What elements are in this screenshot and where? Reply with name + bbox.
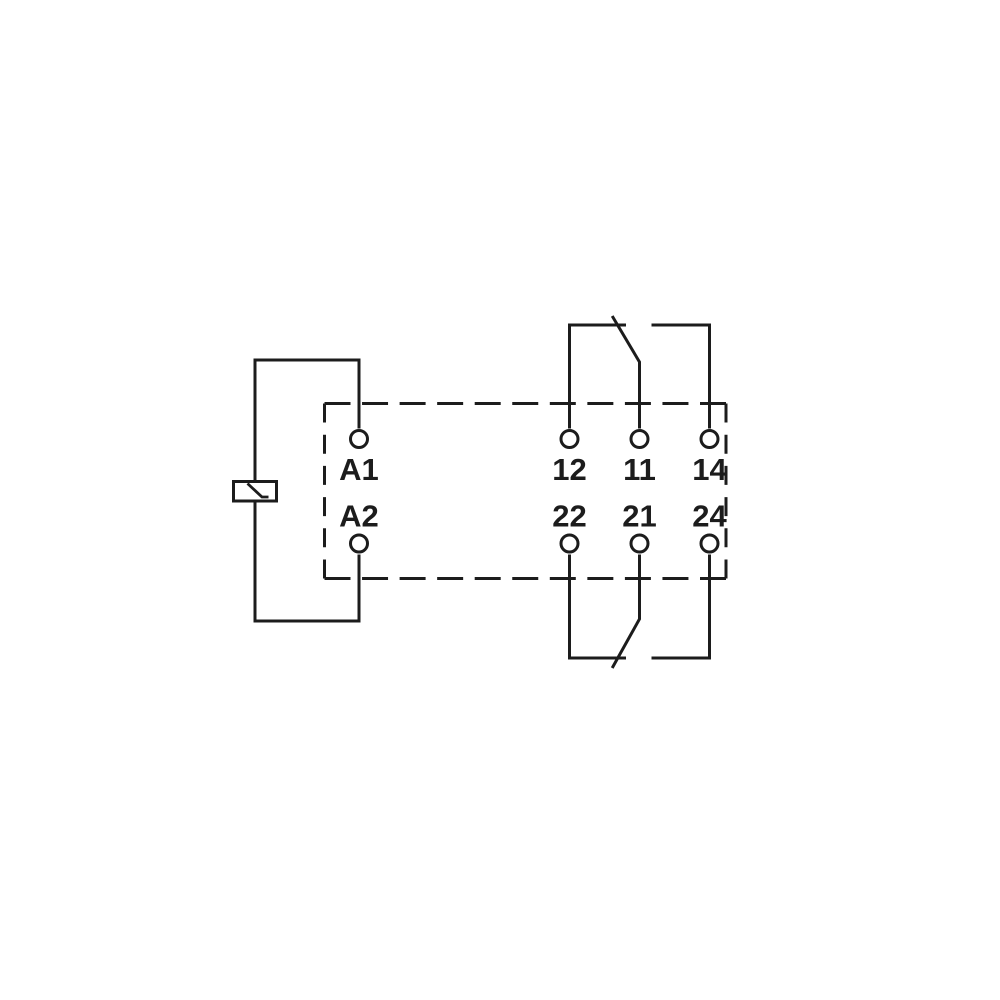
terminal circle A2 [351, 535, 368, 552]
svg-text:22: 22 [552, 499, 586, 534]
contact arm (changeover switch, pole 2) [612, 555, 639, 669]
terminal circle 12 [561, 431, 578, 448]
svg-text:14: 14 [692, 452, 727, 487]
svg-text:21: 21 [622, 499, 656, 534]
svg-text:A2: A2 [339, 499, 379, 534]
terminal circle 21 [631, 535, 648, 552]
contact arm (changeover switch, pole 1) [612, 316, 639, 429]
wire top rail to terminal 14 [652, 325, 710, 429]
terminal circle 11 [631, 431, 648, 448]
terminal circle 24 [701, 535, 718, 552]
wire bottom rail to terminal 24 [652, 555, 710, 659]
relay outline (dashed) right edge [725, 404, 728, 579]
terminal circle 14 [701, 431, 718, 448]
wire A1 to coil loop (up and left) [255, 360, 359, 482]
svg-text:24: 24 [692, 499, 727, 534]
terminal circle A1 [351, 431, 368, 448]
wire terminal 22 down to bottom contact rail [570, 555, 627, 659]
terminal circle 22 [561, 535, 578, 552]
relay coil K1 [234, 482, 277, 502]
relay outline (dashed) left edge [323, 404, 326, 579]
svg-text:12: 12 [552, 452, 586, 487]
wire terminal 12 up to top contact rail [570, 325, 627, 429]
wire coil to A2 (down and right) [255, 501, 359, 621]
relay outline (dashed) top edge [325, 402, 727, 405]
relay outline (dashed) bottom edge [325, 577, 727, 580]
svg-text:A1: A1 [339, 452, 379, 487]
svg-text:11: 11 [623, 452, 656, 487]
